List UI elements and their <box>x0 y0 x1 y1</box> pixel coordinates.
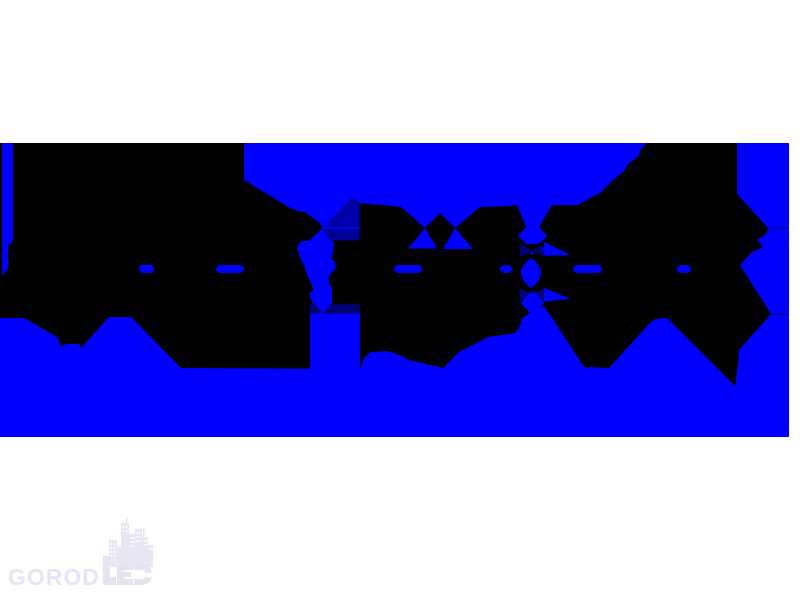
thin line right band lower <box>771 314 789 316</box>
tower1 funnel <box>298 228 336 304</box>
night band (black backdrop) <box>0 143 789 437</box>
tower2 diamond upper <box>518 227 547 244</box>
thin line right band upper <box>768 228 789 230</box>
left blue sliver <box>2 143 13 276</box>
right blue band <box>735 143 789 437</box>
deck light dash 3 <box>394 265 422 273</box>
sky region <box>244 143 647 228</box>
blue V gap left of diamond <box>408 228 437 249</box>
deck light dash 5 <box>573 265 602 273</box>
deck light dash 1 <box>139 265 154 273</box>
tower1 column <box>310 314 360 370</box>
deck light dash 4 <box>500 265 512 273</box>
deck light dash 2 <box>216 265 244 273</box>
tower1 navy upper arm <box>323 197 360 241</box>
tower1 navy cap <box>310 304 360 314</box>
svg-text:GOROD: GOROD <box>8 564 100 590</box>
tower2 neck <box>528 313 537 321</box>
tower2 bowtie1 dot <box>530 251 533 254</box>
logo LED letter E <box>117 564 133 585</box>
tower1 blue arrow through cap <box>315 304 331 314</box>
tower2 wedge2 <box>544 288 571 302</box>
logo skyline windows <box>111 526 153 557</box>
tower2 flare band <box>516 318 586 369</box>
blue V gap right of diamond <box>443 228 473 249</box>
tower1 navy lower band <box>323 229 360 241</box>
logo LED letter D slot <box>146 573 154 577</box>
tower2 bowtie2 navy <box>520 288 532 301</box>
logo LED letter D <box>134 564 152 585</box>
tower2 wedge1 <box>544 242 571 256</box>
tower2 bowtie1 navy <box>520 244 532 257</box>
tower2 diamond lower <box>521 291 545 316</box>
water region <box>0 306 789 437</box>
tower1 bright crossing line <box>323 227 360 229</box>
deck light dash 6 <box>677 265 691 273</box>
tower2 lens <box>521 258 541 288</box>
logo skyline buildings <box>109 517 153 567</box>
logo LED letter L <box>103 556 116 585</box>
